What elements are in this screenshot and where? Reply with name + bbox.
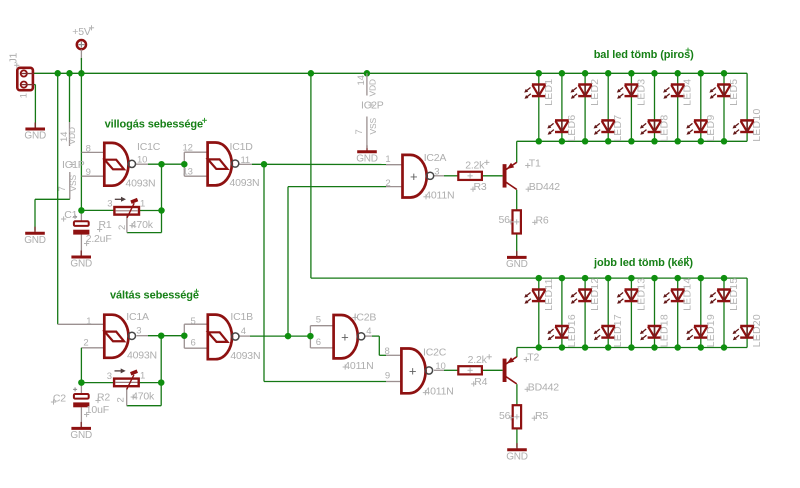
svg-text:R3: R3 — [474, 181, 487, 193]
pin C2 bottom lead — [80, 407, 82, 427]
svg-text:56: 56 — [499, 410, 511, 422]
junction rail column 5 array2 top — [628, 275, 635, 282]
wire array1 column 5 — [630, 73, 632, 141]
wire array1 column 2 — [561, 73, 563, 141]
pin number 14 IC2P — [356, 75, 367, 85]
svg-text:LED3: LED3 — [635, 79, 647, 106]
ground GND IC1P VSS — [24, 227, 46, 246]
svg-text:LED5: LED5 — [728, 79, 740, 106]
junction rail column 5 array2 bottom — [628, 344, 635, 351]
wire array1 column 6 — [654, 73, 656, 141]
pin IC2A output stub — [434, 175, 444, 177]
label IC1P — [62, 159, 85, 171]
junction IC2B input — [307, 333, 314, 340]
nand gate IC2A — [403, 155, 434, 198]
svg-text:LED19: LED19 — [705, 314, 717, 347]
ground GND below R5 — [506, 443, 528, 462]
junction rail column 8 array2 top — [698, 275, 705, 282]
wire array2 column 7 — [677, 278, 679, 347]
ground GND IC2P VSS — [356, 145, 378, 164]
wire IC1C output feedback vertical — [161, 164, 163, 232]
svg-text:7: 7 — [57, 186, 68, 191]
label IC1B — [230, 311, 253, 323]
svg-text:8: 8 — [385, 346, 390, 357]
junction node C2/R2 — [78, 379, 85, 386]
origin cross jobb — [685, 256, 690, 261]
pin IC2C input 9 stub — [386, 381, 401, 383]
pin name VDD IC1P — [67, 127, 77, 144]
pin name VDD IC2P — [367, 79, 377, 96]
pin IC2C output stub — [434, 369, 444, 371]
LED LED14 — [663, 278, 694, 311]
pin number 13 IC1D — [183, 166, 193, 177]
wire to IC2C pin9 horizontal — [264, 381, 386, 383]
junction rail/IC1A — [54, 70, 61, 77]
value BD442 T1 — [529, 181, 560, 193]
junction rail/IC1P VDD — [66, 70, 73, 77]
ground GND below R6 — [506, 251, 528, 270]
svg-text:GND: GND — [70, 430, 92, 441]
junction IC1B out/IC2A pin2 — [285, 333, 292, 340]
svg-text:470k: 470k — [132, 390, 155, 402]
origin cross T2 — [524, 357, 529, 362]
svg-text:2: 2 — [117, 225, 128, 230]
LED LED3 — [617, 79, 648, 106]
resistor R3 2.2k — [458, 172, 482, 180]
LED LED5 — [709, 79, 740, 106]
svg-text:LED15: LED15 — [728, 278, 740, 311]
net label valtas sebessege — [110, 290, 199, 302]
value 4093N IC1B — [230, 350, 260, 362]
junction rail column 7 array1 bottom — [674, 138, 681, 145]
svg-text:56: 56 — [499, 214, 511, 226]
wire array1 column 9 — [723, 73, 725, 141]
label IC1C — [137, 141, 161, 153]
junction rail column 6 array1 bottom — [651, 138, 658, 145]
label IC2C — [423, 347, 447, 359]
wire +5V rail — [34, 72, 747, 74]
wire array1 column 7 — [677, 73, 679, 141]
wire R4 to T2 base — [482, 369, 503, 371]
svg-text:GND: GND — [356, 153, 378, 164]
resistor R5 56 — [513, 405, 521, 428]
junction rail/+5V — [78, 70, 85, 77]
pin C2 top lead — [80, 383, 82, 394]
svg-text:10uF: 10uF — [86, 404, 109, 416]
wire array1 bottom rail — [517, 140, 747, 142]
wire IC2B out down — [378, 336, 380, 355]
pin number 1 R1 — [140, 199, 145, 210]
pin number 14 IC1P — [59, 132, 70, 142]
pin IC1P VDD pin 14 — [69, 122, 71, 146]
wire array1 column 3 — [584, 73, 586, 141]
wire T2 emitter to R5 — [516, 384, 518, 405]
junction rail column 4 array2 bottom — [605, 344, 612, 351]
junction rail column 9 array2 bottom — [721, 344, 728, 351]
pin IC1P VSS pin 7 — [69, 172, 71, 199]
label IC2B — [354, 311, 377, 323]
origin cross bal — [686, 48, 691, 53]
label +5V — [72, 26, 91, 38]
LED LED18 — [640, 314, 671, 347]
value 2.2k R3 — [465, 160, 485, 172]
wire array2 top rail — [311, 277, 747, 279]
svg-text:LED16: LED16 — [566, 314, 578, 347]
svg-text:GND: GND — [24, 235, 46, 246]
pin IC1D output stub — [239, 163, 252, 165]
svg-text:10: 10 — [435, 361, 445, 372]
svg-text:4093N: 4093N — [230, 350, 260, 362]
svg-text:6: 6 — [316, 337, 321, 348]
svg-text:VSS: VSS — [368, 118, 378, 135]
wire array2 column 2 — [561, 278, 563, 347]
transistor T2 BD442 — [503, 357, 517, 384]
pin C1 bottom lead — [80, 234, 82, 256]
value 10uF C2 — [86, 404, 109, 416]
svg-text:2: 2 — [83, 338, 88, 349]
value 56 R6 — [499, 214, 511, 226]
junction R2 pin1/feedback — [158, 379, 165, 386]
junction IC1D input — [181, 161, 188, 168]
svg-text:váltás sebessége: váltás sebessége — [110, 290, 199, 302]
wire rail to array2 vertical — [310, 73, 312, 278]
svg-text:2.2k: 2.2k — [468, 354, 488, 366]
LED LED7 — [594, 115, 625, 142]
svg-text:LED18: LED18 — [659, 314, 671, 347]
svg-text:BD442: BD442 — [529, 181, 560, 193]
svg-text:+: + — [409, 364, 417, 379]
pin IC1B input bracket — [183, 324, 185, 348]
label R4 — [474, 376, 487, 388]
pin number 9 IC1C — [86, 167, 91, 178]
pin IC1D input 13 stub — [184, 175, 207, 177]
pin number 8 IC1C — [86, 144, 91, 155]
svg-text:14: 14 — [356, 75, 367, 85]
svg-text:LED4: LED4 — [682, 79, 694, 106]
origin cross IC1P — [69, 162, 74, 167]
svg-text:IC1C: IC1C — [137, 141, 161, 153]
LED LED17 — [594, 314, 625, 347]
svg-text:2: 2 — [385, 178, 390, 189]
wire R3 to T1 base — [482, 175, 503, 177]
svg-text:3: 3 — [107, 371, 112, 382]
svg-text:4093N: 4093N — [230, 177, 260, 189]
svg-text:LED10: LED10 — [751, 108, 763, 141]
pin IC2P VDD pin 14 — [366, 73, 368, 95]
wire IC2A pin2 horizontal — [288, 186, 386, 188]
nand gate IC2C — [401, 349, 432, 394]
svg-text:LED6: LED6 — [566, 115, 578, 142]
pin number 12 IC1D — [183, 143, 193, 154]
svg-text:LED2: LED2 — [589, 79, 601, 106]
pin R1 wiper pin 2 — [126, 216, 128, 233]
label IC2A — [424, 152, 447, 164]
label R1 — [99, 219, 112, 231]
value 4011N IC2B — [344, 360, 373, 372]
svg-text:LED8: LED8 — [659, 115, 671, 142]
trimmer resistor R1 — [114, 197, 139, 218]
origin cross 4011N IC2C — [423, 390, 428, 395]
svg-text:9: 9 — [86, 167, 91, 178]
LED LED11 — [524, 278, 555, 311]
label C2 — [53, 393, 66, 405]
pin number 3 R1 — [107, 199, 112, 210]
svg-text:T1: T1 — [529, 157, 541, 169]
LED LED9 — [686, 115, 717, 142]
origin cross BD442 T2 — [525, 387, 530, 392]
wire IC1C out to IC1D in — [148, 163, 184, 165]
junction rail column 7 array2 bottom — [674, 344, 681, 351]
label R6 — [536, 214, 549, 226]
junction rail/array2 feed — [308, 70, 315, 77]
wire RC node to R1 pin3 — [81, 209, 114, 211]
wire R1 pin1 to feedback — [139, 210, 162, 212]
origin cross C1 — [61, 216, 66, 221]
wire IC2A pin2 cross-couple vertical — [287, 187, 289, 337]
svg-text:4: 4 — [241, 326, 246, 337]
origin cross R1 — [97, 227, 102, 232]
svg-text:IC2A: IC2A — [424, 152, 447, 164]
svg-text:LED12: LED12 — [589, 278, 601, 311]
junction node C1/R1 — [78, 207, 85, 214]
svg-text:bal led tömb (piros): bal led tömb (piros) — [594, 49, 694, 61]
origin cross J1 — [14, 63, 19, 68]
origin cross 2.2k R4 — [487, 354, 492, 359]
wire IC1P VSS to GND horizontal — [35, 198, 70, 200]
nand gate IC2B — [334, 315, 365, 358]
nand gate IC1B — [208, 315, 239, 360]
pin IC2C input 8 stub — [386, 354, 401, 356]
LED LED15 — [709, 278, 740, 311]
value 4011N IC2A — [425, 190, 454, 202]
LED LED20 — [733, 314, 764, 347]
wire J1 pin2 to GND horizontal — [34, 84, 36, 86]
pin number 4 IC1B — [241, 326, 246, 337]
junction rail column 3 array1 top — [582, 70, 589, 77]
junction rail column 8 array1 top — [698, 70, 705, 77]
pin number 2 IC2A — [385, 178, 390, 189]
origin cross 4011N IC2A — [423, 194, 428, 199]
origin cross valtas — [194, 289, 199, 294]
wire array1 column 4 — [607, 73, 609, 141]
pin number 1 IC2A — [385, 154, 390, 165]
label IC1A — [126, 311, 149, 323]
origin cross R3 — [470, 187, 475, 192]
net label bal led tomb piros — [594, 49, 694, 61]
pin IC1B output stub — [238, 335, 250, 337]
svg-text:2: 2 — [116, 397, 127, 402]
pin IC2B input bracket — [309, 326, 311, 348]
origin cross C2 — [51, 399, 56, 404]
svg-text:VDD: VDD — [67, 127, 77, 144]
svg-text:IC2C: IC2C — [423, 347, 447, 359]
pin number 5 IC2B — [316, 315, 321, 326]
svg-text:LED13: LED13 — [635, 278, 647, 311]
svg-text:1: 1 — [140, 371, 145, 382]
pin name VSS IC2P — [368, 118, 378, 135]
LED LED12 — [571, 278, 602, 311]
svg-text:R2: R2 — [97, 391, 110, 403]
nand gate IC1C — [104, 143, 135, 186]
svg-text:4011N: 4011N — [425, 190, 454, 202]
origin cross IC2P — [368, 102, 373, 107]
origin cross R5 — [532, 416, 537, 421]
junction rail column 5 array1 top — [628, 70, 635, 77]
resistor R4 2.2k — [458, 366, 482, 374]
wire IC2B out to IC2C pin8 — [379, 354, 386, 356]
pin number 3 R2 — [107, 371, 112, 382]
origin cross R4 — [471, 381, 476, 386]
pin number 6 IC1B — [191, 338, 196, 349]
LED LED4 — [663, 79, 694, 106]
svg-text:R6: R6 — [536, 214, 549, 226]
label R5 — [535, 410, 548, 422]
wire IC1B out to IC2B in — [250, 335, 310, 337]
pin number 7 IC2P — [354, 129, 365, 134]
wire T2 collector vertical — [516, 348, 518, 358]
pin number 6 IC2B — [316, 337, 321, 348]
pin number 10 IC2C — [435, 361, 445, 372]
origin cross 2.2uF — [84, 241, 89, 246]
origin cross 56 R6 — [508, 219, 513, 224]
wire array2 column 5 — [630, 278, 632, 347]
svg-text:LED17: LED17 — [612, 314, 624, 347]
svg-text:1: 1 — [86, 316, 91, 327]
svg-text:3: 3 — [434, 166, 439, 177]
svg-text:2.2uF: 2.2uF — [86, 233, 112, 245]
wire R2 wiper horizontal — [127, 405, 162, 407]
junction IC1D out — [261, 161, 268, 168]
value 470k R2 — [132, 390, 155, 402]
value 56 R5 — [499, 410, 511, 422]
label IC2P — [361, 100, 384, 112]
svg-text:2.2k: 2.2k — [465, 160, 485, 172]
value BD442 T2 — [528, 381, 559, 393]
trimmer resistor R2 — [114, 368, 139, 389]
wire array1 column 1 — [538, 73, 540, 141]
wire array2 column 3 — [584, 278, 586, 347]
svg-text:4011N: 4011N — [425, 385, 454, 397]
pin IC2A input 1 stub — [386, 164, 403, 166]
wire R6 to GND — [516, 234, 518, 257]
origin cross T1 — [525, 163, 530, 168]
wire IC1A feedback vertical — [160, 336, 162, 406]
pin number 10 IC1C — [137, 154, 147, 165]
svg-text:8: 8 — [86, 144, 91, 155]
junction rail column 9 array1 bottom — [721, 138, 728, 145]
svg-text:11: 11 — [241, 155, 250, 166]
LED LED16 — [547, 314, 578, 347]
svg-text:IC1B: IC1B — [230, 311, 253, 323]
origin cross 470k R1 — [129, 223, 134, 228]
LED LED10 — [733, 108, 764, 141]
label IC1D — [230, 141, 254, 153]
svg-text:LED11: LED11 — [543, 278, 555, 311]
wire array2 column 6 — [654, 278, 656, 347]
value 2.2k R4 — [468, 354, 488, 366]
pin IC1C output stub — [135, 163, 148, 165]
junction rail column 1 array1 bottom — [536, 138, 543, 145]
junction rail column 4 array1 top — [605, 70, 612, 77]
junction rail column 1 array1 top — [536, 70, 543, 77]
junction rail column 8 array1 bottom — [698, 138, 705, 145]
origin cross 2.2k R3 — [484, 160, 489, 165]
wire IC1P VSS to GND vertical — [34, 199, 36, 230]
svg-text:6: 6 — [191, 338, 196, 349]
pin number 1 IC1A — [86, 316, 91, 327]
pin IC1D input 12 stub — [184, 151, 207, 153]
label C1 — [64, 209, 77, 221]
wire IC1A pin1 horizontal — [58, 323, 105, 325]
origin cross villogas — [202, 118, 207, 123]
wire array2 column 8 — [700, 278, 702, 347]
junction IC1B input — [181, 332, 188, 339]
junction rail column 9 array1 top — [721, 70, 728, 77]
svg-text:GND: GND — [506, 451, 528, 462]
LED LED8 — [640, 115, 671, 142]
value 470k R1 — [131, 219, 154, 231]
junction rail column 3 array1 bottom — [582, 138, 589, 145]
pin name VSS IC1P — [68, 175, 78, 192]
pin IC1B input 6 stub — [184, 347, 208, 349]
junction rail column 6 array1 top — [651, 70, 658, 77]
svg-text:1: 1 — [19, 93, 30, 98]
LED LED2 — [571, 79, 602, 106]
capacitor C2 10uF — [73, 387, 89, 407]
wire rail to IC1P VDD — [69, 73, 71, 122]
junction rail column 6 array2 bottom — [651, 344, 658, 351]
svg-text:BD442: BD442 — [528, 381, 559, 393]
junction rail/IC2P VDD — [364, 70, 371, 77]
pin number 2 IC1A — [83, 338, 88, 349]
wire IC1A out to IC1B in — [148, 335, 184, 337]
wire array2 column 1 — [538, 278, 540, 347]
svg-text:3: 3 — [136, 325, 141, 336]
ground GND below C2 — [70, 422, 92, 441]
pin number 7 IC1P — [57, 186, 68, 191]
svg-text:villogás sebessége: villogás sebessége — [105, 118, 203, 130]
pin IC1C input 8 stub — [82, 151, 105, 153]
svg-text:10: 10 — [137, 154, 147, 165]
nand gate IC1A — [104, 315, 135, 358]
svg-text:+5V: +5V — [72, 26, 91, 38]
resistor R6 56 — [513, 210, 521, 233]
svg-text:LED7: LED7 — [612, 115, 624, 142]
ground GND below C1 — [70, 251, 92, 270]
svg-text:GND: GND — [506, 259, 528, 270]
svg-text:+: + — [410, 169, 418, 184]
junction rail column 6 array2 top — [651, 275, 658, 282]
origin cross 10uF — [84, 412, 89, 417]
wire R5 to GND — [516, 429, 518, 448]
connector J1 — [17, 68, 33, 90]
junction R1 pin1/feedback — [158, 207, 165, 214]
wire array2 column 9 — [723, 278, 725, 347]
wire T1 emitter to R6 — [516, 190, 518, 211]
junction rail column 8 array2 bottom — [698, 344, 705, 351]
svg-text:4093N: 4093N — [127, 350, 157, 362]
label T1 — [529, 157, 541, 169]
svg-text:T2: T2 — [527, 351, 539, 363]
origin cross R2 — [95, 398, 100, 403]
pin IC2B input 6 stub — [310, 347, 333, 349]
svg-text:4011N: 4011N — [344, 360, 373, 372]
svg-text:J1: J1 — [8, 52, 20, 63]
wire IC2C out to R4 — [444, 369, 458, 371]
pin C1 top lead — [80, 210, 82, 221]
svg-text:+: + — [341, 329, 349, 344]
label R2 — [97, 391, 110, 403]
